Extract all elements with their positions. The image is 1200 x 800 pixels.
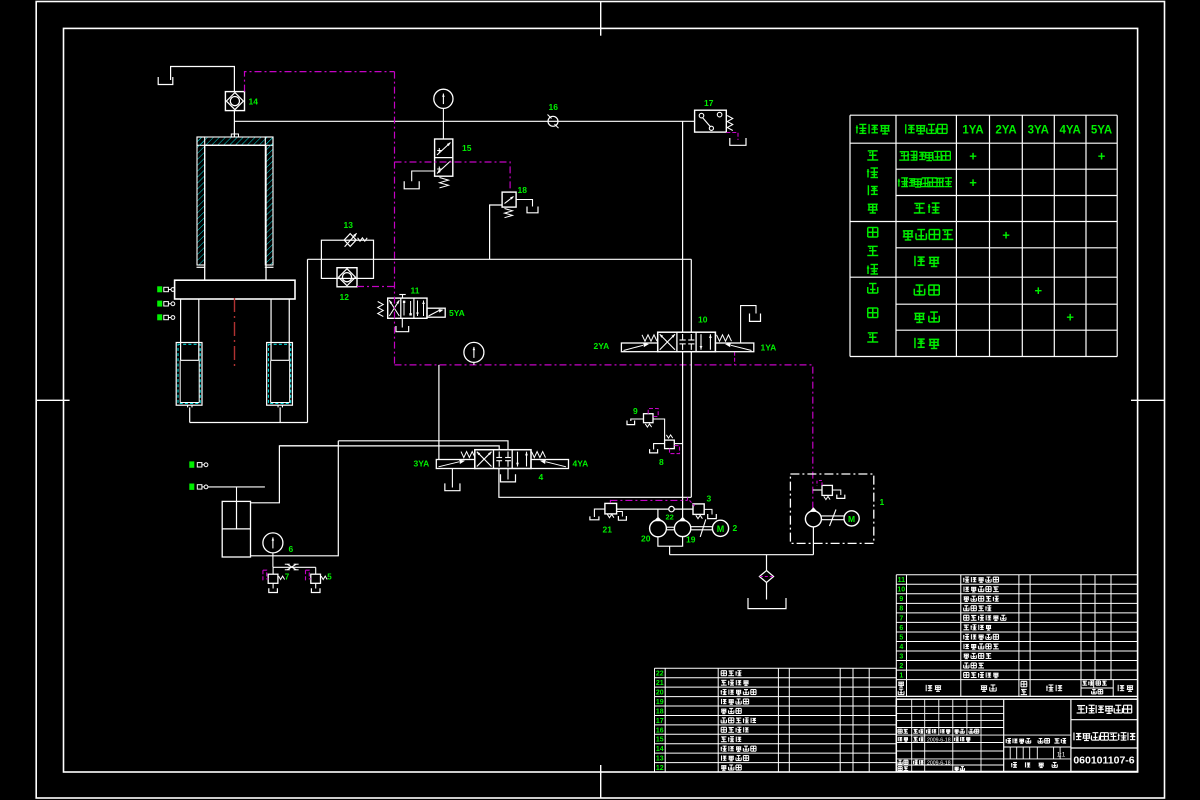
tank symbol [627,421,635,425]
drawing title [1073,732,1075,740]
tank symbol [527,207,538,213]
parts header row [896,695,1137,697]
tank symbol [311,588,320,592]
svg-text:2009-6-18: 2009-6-18 [927,761,951,767]
bypass box for valves 13/12 [321,240,373,278]
unit shaft [821,515,844,517]
relief valve 8 [665,440,675,449]
valve 18 drain [516,200,532,207]
svg-text:4: 4 [899,644,903,651]
limit switch marker [157,314,162,320]
pressure switch 17 [695,110,727,132]
svg-text:1YA: 1YA [761,343,777,353]
svg-text:2YA: 2YA [594,341,610,351]
svg-text:11: 11 [411,286,420,296]
valve 18 inlet [490,205,503,259]
relief valve 9 [644,414,654,423]
svg-text:3YA: 3YA [414,459,430,469]
suction manifold [658,537,683,547]
svg-text:3: 3 [707,494,712,504]
valve 11 top tick [402,295,404,299]
valve 10 left solenoid [621,343,657,352]
svg-text:10: 10 [698,315,708,325]
svg-text:17: 17 [656,718,664,725]
svg-text:9: 9 [899,596,903,603]
press slider plate [175,280,295,299]
svg-text:10: 10 [897,587,905,594]
directional valve 10 [658,332,716,352]
svg-text:8: 8 [659,457,664,467]
tank symbol [269,588,278,592]
svg-text:13: 13 [344,220,354,230]
pilot line to valve 14 [245,72,395,92]
orifice 16 [548,116,558,126]
pump pressure line [617,508,693,510]
svg-text:8: 8 [899,606,903,613]
throttle valve 13 [344,234,356,247]
table header [856,125,858,133]
valve 4 center drain [507,469,509,480]
valve 10 vent [741,306,756,343]
directional valve 4 [475,450,531,469]
svg-text:M: M [717,524,725,534]
pilot trunk vertical [394,72,396,365]
svg-text:1YA: 1YA [962,125,983,137]
svg-text:19: 19 [686,535,696,545]
svg-text:+: + [969,149,977,164]
tank symbol [404,181,419,189]
unit outlet [812,527,814,555]
return cylinder [176,343,202,406]
svg-text:6: 6 [289,544,294,554]
pump 20 [650,520,667,537]
power unit 1 box [790,474,873,543]
pump 19 [674,520,690,536]
svg-text:3YA: 3YA [1028,125,1049,137]
svg-text:22: 22 [656,671,664,678]
check valve 22 [669,506,674,511]
valve 10 bottom wires [682,352,684,521]
solenoid valve 15 [435,139,453,176]
svg-text:4: 4 [539,472,544,482]
ram / piston rod [204,145,206,280]
svg-text:+: + [1035,283,1043,298]
pilot line valve15/18 [395,162,511,192]
shaft [691,526,713,528]
check valve 12 [337,268,357,287]
svg-text:12: 12 [656,765,664,772]
svg-text:060101107-6: 060101107-6 [1073,755,1134,767]
valve 10 right solenoid [715,343,753,352]
svg-text:20: 20 [656,690,664,697]
tank symbol [445,483,460,490]
svg-text:11: 11 [898,577,906,584]
pilot line valve 12 [357,286,395,288]
svg-text:14: 14 [249,97,259,107]
tank symbol [396,326,409,332]
svg-text:2: 2 [899,663,903,670]
valve 4 left drain [451,469,453,488]
svg-text:16: 16 [549,102,559,112]
svg-text:13: 13 [656,756,664,763]
line to valves 7 and 5 [273,566,316,568]
school name [1077,705,1085,707]
tank symbol [750,314,761,322]
svg-text:9: 9 [633,406,638,416]
sensor wire to tank [208,486,265,488]
red center line [234,298,236,369]
svg-text:21: 21 [603,525,613,535]
gauge stem [272,553,274,567]
tank symbol [708,514,717,519]
svg-text:5YA: 5YA [1091,125,1112,137]
oil tank [222,501,250,557]
svg-text:2YA: 2YA [995,125,1016,137]
main pressure line [234,120,694,122]
valve 15 spring [440,178,449,188]
tank symbol [837,495,845,499]
svg-text:7: 7 [899,615,903,622]
tank symbol [590,516,599,519]
svg-text:+: + [969,175,977,190]
electric motor 2 [712,520,728,536]
tank symbol [501,474,516,482]
suction line [670,554,814,556]
wire tank top to pipe [251,446,339,503]
svg-text:15: 15 [656,737,664,744]
valve 4 right solenoid [531,460,569,469]
svg-text:21: 21 [656,680,664,687]
svg-text:6: 6 [899,625,903,632]
svg-text:17: 17 [704,98,714,108]
revision texts [898,728,902,730]
limit switch marker [189,461,194,467]
pressure gauge [434,89,453,108]
svg-text:15: 15 [462,143,472,153]
pilot stub 1YA [734,352,736,365]
valve 11 solenoid box [427,308,445,317]
svg-text:7: 7 [285,573,290,582]
svg-text:5YA: 5YA [449,308,465,318]
valve 15 drain [412,171,435,181]
valve 11 drain [401,318,403,327]
svg-text:19: 19 [656,699,664,706]
svg-text:4YA: 4YA [1060,125,1081,137]
tank symbol [748,598,786,609]
unit relief valve [822,485,832,495]
svg-text:2009-6-18: 2009-6-18 [927,738,951,744]
svg-text:3: 3 [899,653,903,660]
valve 4 supply wire [438,365,440,460]
svg-text:22: 22 [666,513,674,522]
action names [900,151,909,153]
action table grid [849,115,851,356]
svg-text:18: 18 [518,185,528,195]
svg-text:1: 1 [899,673,903,680]
solenoid valve 11 [388,298,427,318]
transfer line [308,258,692,260]
tank symbol [158,77,173,85]
valve 4 B line [499,469,691,498]
cylinder names [868,150,878,152]
pressure gauge [464,342,484,362]
return cylinder [267,343,293,406]
relief valve 3 [693,504,704,515]
stage mark area [1004,734,1071,736]
valve 11 left spring [378,302,384,317]
limit switch marker [157,286,162,292]
tank symbol [650,449,658,453]
relief valve 21 [605,503,617,514]
svg-text:M: M [848,514,855,524]
svg-text:5: 5 [899,634,903,641]
svg-text:18: 18 [656,708,664,715]
svg-text:5: 5 [327,573,332,582]
pilot line 21 to 3 [610,499,687,501]
svg-text:+: + [1066,310,1074,325]
coupling [666,526,674,528]
relief valve 7 [272,567,274,574]
svg-text:20: 20 [641,534,651,544]
svg-text:+: + [1098,149,1106,164]
wire tank bottom return [251,441,339,556]
wire manifold up to line [307,259,309,422]
cylinder port stub [231,134,238,137]
relief valve 5 [315,567,317,574]
pilot operated check valve 14 [225,92,244,111]
svg-text:+: + [1002,227,1010,242]
wire check valve 14 to cylinder [233,111,235,137]
main hydraulic cylinder body [197,137,273,145]
return cylinder manifold [190,422,308,424]
unit pump [805,511,821,527]
wire breather to check valve 14 [171,67,235,92]
filter [759,571,773,583]
svg-text:2: 2 [733,523,738,533]
wire P to valve 10 [682,121,684,332]
svg-text:4YA: 4YA [573,459,589,469]
svg-text:16: 16 [656,727,664,734]
svg-text:1: 1 [880,497,885,507]
limit switch marker [189,484,194,490]
pilot trunk horizontal [395,365,813,511]
unit motor [844,511,859,526]
tank symbol [618,516,626,520]
tank symbol [730,138,746,145]
wire A to valve 10 [690,259,692,332]
svg-text:14: 14 [656,746,664,753]
svg-text:12: 12 [340,292,350,302]
plug/orifice symbol [287,564,296,570]
revision grid [896,705,1003,707]
valve 4 top wires [338,441,508,450]
svg-text:1:1: 1:1 [1057,752,1066,758]
pressure gauge [263,533,283,553]
limit switch marker [157,301,162,307]
pressure valve 18 [502,192,516,207]
valve 4 left solenoid [436,460,475,469]
